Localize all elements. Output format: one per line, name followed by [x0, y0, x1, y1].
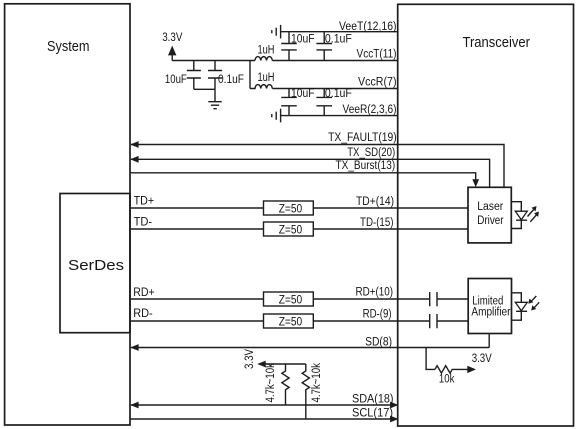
svg-text:RD-: RD-: [133, 308, 153, 320]
ground VeeR: [272, 109, 281, 123]
svg-text:VccR(7): VccR(7): [358, 77, 397, 89]
wire TX_FAULT: [131, 145, 504, 188]
arrow LED emission 2: [530, 215, 536, 222]
svg-text:VccT(11): VccT(11): [357, 49, 397, 61]
svg-text:System: System: [47, 39, 90, 55]
wire 3.3V stem: [171, 55, 173, 61]
wire pullup rail: [265, 363, 306, 365]
svg-text:1uH: 1uH: [258, 44, 275, 56]
arrow TX_FAULT left: [130, 141, 138, 148]
wire SDA net: [131, 404, 397, 406]
arrow TX_Burst down: [472, 179, 479, 187]
block SerDes: [60, 194, 130, 333]
svg-text:SD(8): SD(8): [365, 336, 392, 348]
svg-text:Z=50: Z=50: [279, 224, 303, 236]
wire RD- mid: [313, 320, 429, 322]
wire TD- left: [130, 228, 264, 230]
impedance Z3 Z=50: [264, 292, 314, 306]
wire SCL net: [130, 418, 397, 420]
arrow 10k 3.3V: [467, 366, 476, 373]
svg-text:1uH: 1uH: [258, 72, 275, 84]
capacitor RD- coupling: [430, 314, 437, 328]
capacitor 10uF VccR bank: [281, 89, 297, 116]
svg-text:3.3V: 3.3V: [472, 353, 492, 365]
svg-text:TD-(15): TD-(15): [360, 217, 394, 229]
svg-text:3.3V: 3.3V: [244, 349, 256, 369]
capacitor 0.1uF input: [208, 61, 222, 90]
svg-text:Driver: Driver: [477, 215, 504, 227]
svg-text:Z=50: Z=50: [279, 294, 303, 306]
arrow SD left: [130, 344, 138, 351]
wire 3.3V rail: [172, 60, 255, 62]
capacitor 10uF input: [187, 61, 201, 90]
wire LED bracket: [512, 202, 522, 229]
wire ground stem: [214, 89, 216, 101]
svg-text:TX_Burst(13): TX_Burst(13): [336, 160, 396, 172]
wire VccR net: [272, 88, 397, 90]
svg-text:SerDes: SerDes: [68, 258, 124, 274]
ground VeeT: [272, 25, 281, 39]
svg-text:4.7k~10k: 4.7k~10k: [265, 363, 277, 403]
wire 10k drop: [426, 348, 435, 370]
svg-text:RD+(10): RD+(10): [356, 287, 394, 299]
ground input: [208, 102, 221, 109]
diode LED laser: [515, 211, 527, 220]
wire VeeR net: [281, 115, 398, 117]
wire RD- right: [437, 320, 468, 322]
arrow photodiode light 2: [534, 302, 539, 307]
svg-text:RD-(9): RD-(9): [363, 309, 392, 321]
block Transceiver: [398, 4, 574, 426]
wire VeeT net: [281, 31, 398, 33]
wire amplifier SD pin: [488, 334, 490, 348]
inductor L2 1uH: [250, 85, 272, 89]
impedance Z2 Z=50: [264, 222, 314, 236]
block Laser Driver U1: [468, 187, 511, 243]
block Limited Amplifier U2: [468, 279, 511, 334]
wire SD net: [131, 347, 489, 349]
arrow pullup 3.3V left: [257, 361, 265, 368]
svg-text:VeeR(2,3,6): VeeR(2,3,6): [343, 104, 397, 116]
svg-text:0.1uF: 0.1uF: [218, 74, 244, 86]
diode photodiode: [515, 302, 527, 311]
svg-text:Laser: Laser: [477, 201, 503, 213]
arrow SCL right: [390, 416, 398, 423]
svg-text:SDA(18): SDA(18): [352, 393, 394, 405]
svg-text:10k: 10k: [439, 374, 455, 386]
wire RD- left: [130, 320, 264, 322]
svg-text:TX_SD(20): TX_SD(20): [347, 147, 395, 159]
wire input cap bottom rail: [194, 88, 215, 90]
impedance Z4 Z=50: [264, 314, 314, 328]
inductor L1 1uH: [255, 57, 272, 61]
wire TX_SD: [131, 159, 490, 187]
svg-text:Transceiver: Transceiver: [463, 35, 531, 51]
resistor R1 4.7k~10k: [282, 364, 289, 405]
wire VccT net: [272, 60, 397, 62]
wire RD+ left: [130, 298, 264, 300]
wire TX_Burst: [130, 173, 476, 181]
wire RD+ right: [437, 298, 468, 300]
svg-text:4.7k~10k: 4.7k~10k: [311, 363, 323, 403]
svg-text:Z=50: Z=50: [279, 203, 303, 215]
arrow SDA right: [390, 402, 398, 409]
capacitor 0.1uF VccT bank: [316, 32, 332, 61]
wire TD- right: [313, 228, 468, 230]
wire photodiode bracket: [512, 293, 521, 320]
svg-text:VeeT(12,16): VeeT(12,16): [339, 21, 397, 33]
svg-text:10uF: 10uF: [291, 88, 315, 100]
svg-text:0.1uF: 0.1uF: [325, 88, 352, 100]
svg-text:3.3V: 3.3V: [162, 32, 182, 44]
arrow 3.3V up: [168, 46, 176, 56]
svg-text:SCL(17): SCL(17): [352, 407, 393, 419]
arrow TX_SD left: [130, 156, 138, 163]
resistor R2 4.7k~10k: [302, 364, 309, 419]
svg-text:TD+: TD+: [134, 196, 155, 208]
svg-text:TD-: TD-: [134, 216, 153, 228]
wire junction drop: [249, 61, 251, 89]
resistor 10k: [435, 366, 469, 373]
svg-text:RD+: RD+: [133, 287, 155, 299]
arrow LED emission 1: [528, 210, 534, 217]
svg-text:Z=50: Z=50: [279, 316, 303, 328]
wire TD+ right: [313, 207, 468, 209]
impedance Z1 Z=50: [264, 201, 314, 215]
svg-text:TD+(14): TD+(14): [356, 196, 394, 208]
arrow SDA left: [130, 402, 138, 409]
svg-text:10uF: 10uF: [291, 33, 315, 45]
arrow photodiode light 1: [531, 296, 536, 301]
svg-text:Amplifier: Amplifier: [471, 307, 510, 319]
svg-text:0.1uF: 0.1uF: [325, 33, 352, 45]
wire RD+ mid: [313, 298, 429, 300]
capacitor 0.1uF VccR bank: [316, 89, 332, 116]
capacitor RD+ coupling: [430, 292, 437, 306]
capacitor 10uF VccT bank: [281, 32, 297, 61]
wire TD+ left: [130, 207, 264, 209]
svg-text:10uF: 10uF: [165, 74, 187, 86]
svg-text:TX_FAULT(19): TX_FAULT(19): [328, 132, 397, 144]
block System: [5, 4, 130, 425]
